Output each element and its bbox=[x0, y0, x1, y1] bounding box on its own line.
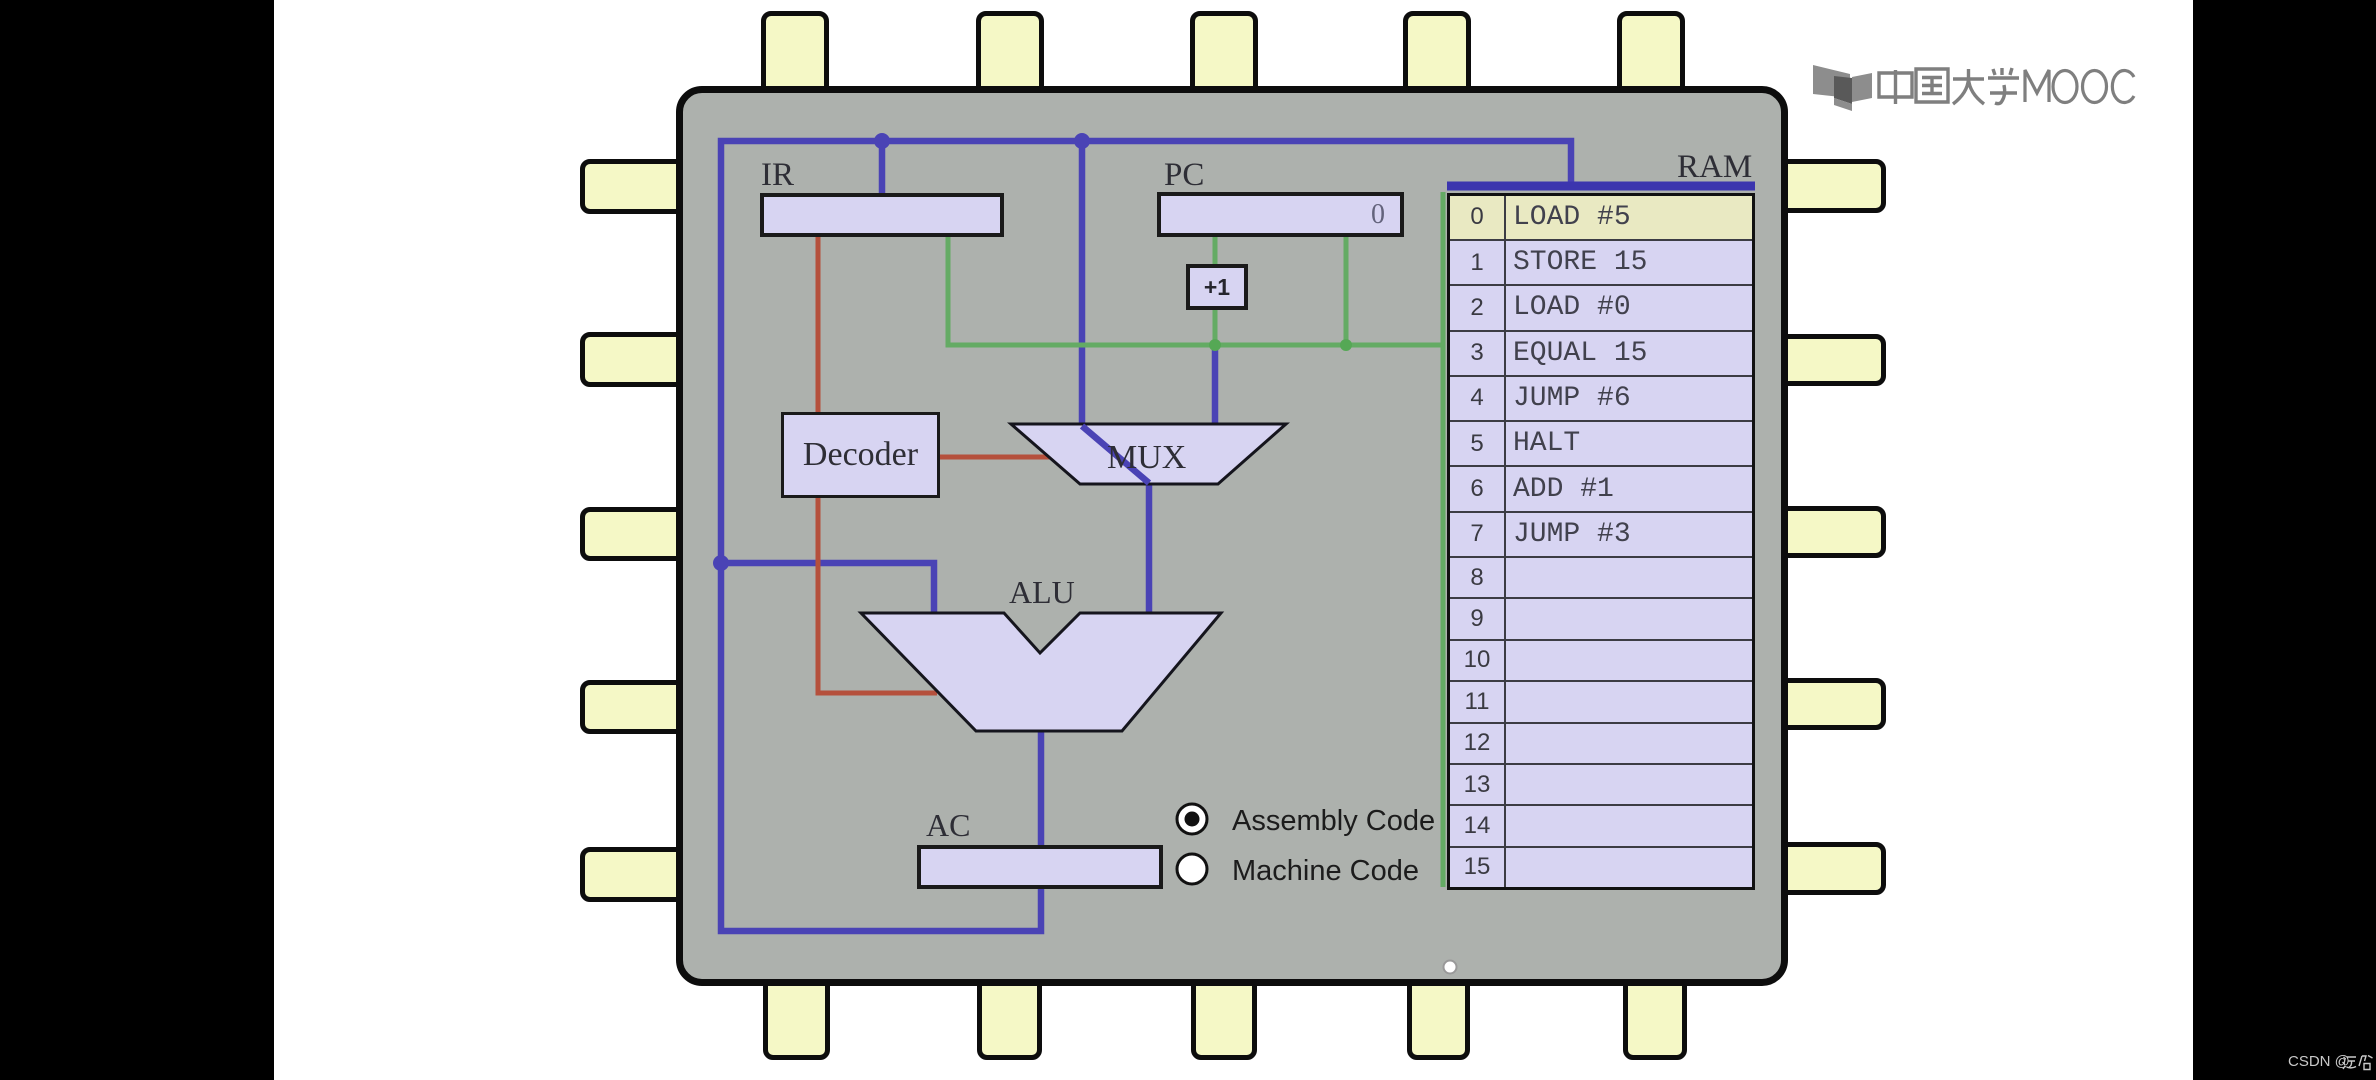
ram row 7 JUMP #3 bbox=[1450, 512, 1752, 557]
ram row 6 ADD #1 bbox=[1450, 466, 1752, 511]
ram row 9 bbox=[1450, 598, 1752, 639]
wire green +1 out bbox=[1213, 308, 1218, 345]
logo text M bbox=[2025, 70, 2049, 102]
label Assembly Code bbox=[1232, 805, 1435, 838]
wire blue stub bus to IR bbox=[879, 141, 886, 195]
wire blue RAM data line bbox=[1447, 182, 1755, 191]
node bus-MUX junction bbox=[1074, 133, 1090, 149]
left pin 2 bbox=[580, 332, 690, 387]
wire green RAM address vertical bbox=[1441, 192, 1446, 887]
logo icon left flap bbox=[1813, 65, 1850, 98]
right pin 2 bbox=[1778, 334, 1886, 386]
right pin 3 bbox=[1778, 506, 1886, 558]
left pin 4 bbox=[580, 680, 690, 734]
top pin 4 bbox=[1403, 11, 1471, 106]
wire blue bus branch to ALU left input bbox=[721, 563, 934, 616]
bottom pin 4 bbox=[1407, 976, 1470, 1060]
mux MUX trapezoid bbox=[1011, 424, 1286, 484]
ram row 3 EQUAL 15 bbox=[1450, 331, 1752, 376]
label MUX bbox=[1107, 439, 1186, 477]
logo glyph 学 bbox=[1988, 68, 2019, 104]
left pin 5 bbox=[580, 847, 690, 902]
label IR bbox=[761, 157, 794, 194]
logo glyph 中 bbox=[1879, 70, 1912, 104]
wire red IR to Decoder bbox=[816, 237, 821, 412]
label ALU bbox=[1009, 574, 1075, 611]
ram row 10 bbox=[1450, 640, 1752, 681]
ram row 5 HALT bbox=[1450, 421, 1752, 466]
logo text C bbox=[2112, 71, 2134, 103]
chip bottom notch circle bbox=[1438, 955, 1462, 979]
bottom pin 1 bbox=[763, 976, 830, 1060]
label PC bbox=[1164, 157, 1204, 194]
right pin 5 bbox=[1778, 842, 1886, 895]
logo 中国大学MOOC bbox=[1806, 55, 2146, 125]
wire red Decoder to ALU control bbox=[818, 496, 937, 693]
alu ALU vee shape bbox=[861, 613, 1221, 731]
register PC bbox=[1157, 192, 1404, 237]
logo text O bbox=[2083, 71, 2107, 103]
bottom pin 3 bbox=[1191, 976, 1257, 1060]
left pin 1 bbox=[580, 159, 690, 214]
top pin 5 bbox=[1617, 11, 1685, 106]
wire blue ALU output through AC bbox=[1038, 729, 1045, 889]
ram row 13 bbox=[1450, 764, 1752, 805]
node bus-ALU junction bbox=[713, 555, 729, 571]
ram row 11 bbox=[1450, 681, 1752, 722]
right black bar bbox=[2193, 0, 2376, 1080]
wire blue MUX internal diagonal bbox=[1082, 424, 1149, 483]
logo icon right flap bbox=[1852, 73, 1872, 102]
node bus-IR junction bbox=[874, 133, 890, 149]
ram row 15 bbox=[1450, 847, 1752, 887]
logo text O bbox=[2053, 71, 2077, 103]
wire blue PC+1 to MUX right input bbox=[1212, 345, 1219, 426]
bottom pin 5 bbox=[1623, 976, 1687, 1060]
top pin 2 bbox=[976, 11, 1044, 106]
watermark CSDN @ bbox=[2288, 1053, 2350, 1070]
bottom pin 2 bbox=[977, 976, 1042, 1060]
top pin 3 bbox=[1190, 11, 1258, 106]
ram RAM table bbox=[1447, 193, 1755, 890]
wire blue bus: AC bottom loop, left riser, top run bbox=[721, 141, 1571, 931]
ram row 8 bbox=[1450, 557, 1752, 598]
ram row 14 bbox=[1450, 805, 1752, 846]
node green +1 junction bbox=[1209, 339, 1221, 351]
left pin 3 bbox=[580, 507, 690, 561]
wire green IR operand down and address bus horizontal bbox=[948, 237, 1443, 345]
watermark 沄吟 glyphs bbox=[2342, 1054, 2374, 1071]
right pin 4 bbox=[1778, 678, 1886, 730]
top pin 1 bbox=[761, 11, 829, 106]
logo glyph 大 bbox=[1953, 69, 1984, 104]
wire blue bus to MUX left input bbox=[1079, 141, 1086, 424]
ram row 4 JUMP #6 bbox=[1450, 376, 1752, 421]
wire red Decoder to MUX select bbox=[940, 455, 1052, 460]
decoder box bbox=[781, 412, 940, 498]
node green PC junction bbox=[1340, 339, 1352, 351]
wire green PC to +1 bbox=[1213, 237, 1218, 266]
wire green PC right stub bbox=[1344, 237, 1349, 345]
register IR bbox=[760, 193, 1004, 237]
register AC bbox=[917, 845, 1163, 889]
wire blue MUX output to ALU bbox=[1146, 481, 1153, 616]
wire blue MUX internal diagonal overlay bbox=[1082, 426, 1149, 483]
logo glyph 国 bbox=[1916, 69, 1948, 102]
ram row 1 STORE 15 bbox=[1450, 240, 1752, 285]
logo icon tail bbox=[1834, 98, 1852, 111]
right pin 1 bbox=[1778, 159, 1886, 213]
chip body bbox=[676, 86, 1788, 986]
label RAM bbox=[1677, 149, 1752, 186]
logo icon center dark panel bbox=[1834, 76, 1852, 104]
label Machine Code bbox=[1232, 855, 1419, 888]
left black bar bbox=[0, 0, 274, 1080]
ram row 0 LOAD #5 bbox=[1450, 196, 1752, 887]
ram row 12 bbox=[1450, 723, 1752, 764]
ram row 2 LOAD #0 bbox=[1450, 285, 1752, 330]
incrementer +1 box bbox=[1186, 264, 1248, 310]
label AC bbox=[926, 807, 970, 844]
radio Assembly Code (selected) bbox=[1172, 799, 1472, 909]
